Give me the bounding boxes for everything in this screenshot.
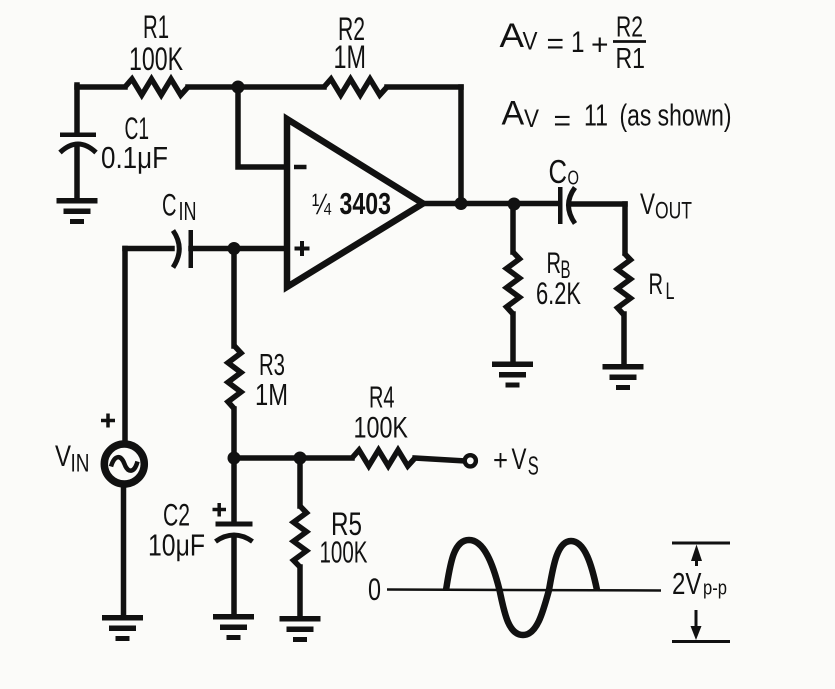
svg-text:R: R [547,247,562,280]
svg-text:1: 1 [571,26,585,59]
svg-text:3403: 3403 [340,186,392,221]
svg-text:OUT: OUT [655,198,692,225]
svg-text:C2: C2 [163,497,190,533]
svg-text:IN: IN [71,450,90,478]
svg-text:1M: 1M [334,39,367,75]
svg-text:R: R [649,268,664,301]
svg-text:2V: 2V [672,566,702,601]
svg-text:S: S [528,451,539,481]
svg-text:p-p: p-p [703,577,727,600]
svg-text:0.1μF: 0.1μF [101,140,168,175]
svg-text:10μF: 10μF [148,529,205,563]
svg-text:11: 11 [584,98,608,133]
svg-text:V: V [524,105,539,133]
svg-text:R1: R1 [616,43,646,75]
svg-text:=: = [547,28,565,61]
svg-text:=: = [554,105,572,138]
svg-text:V: V [512,443,527,476]
svg-text:V: V [523,28,538,56]
svg-text:+: + [591,29,609,62]
svg-text:V: V [55,440,71,473]
svg-text:L: L [666,278,675,305]
svg-text:R2: R2 [616,12,643,44]
svg-text:A: A [500,17,525,55]
svg-text:6.2K: 6.2K [536,275,581,311]
svg-text:(as shown): (as shown) [620,98,732,133]
svg-text:V: V [640,188,655,221]
svg-text:100K: 100K [129,41,183,77]
svg-text:100K: 100K [320,535,368,570]
svg-text:A: A [502,95,525,133]
svg-text:1M: 1M [255,377,288,412]
svg-text:IN: IN [179,198,197,226]
svg-text:100K: 100K [354,412,409,445]
svg-text:C: C [549,154,568,191]
svg-text:C: C [162,187,177,223]
svg-text:¼: ¼ [312,188,332,221]
svg-text:+: + [493,444,508,477]
svg-text:B: B [561,256,571,284]
svg-text:R4: R4 [369,381,395,415]
svg-text:R1: R1 [143,9,169,45]
svg-text:O: O [568,167,580,190]
svg-text:0: 0 [368,571,381,607]
